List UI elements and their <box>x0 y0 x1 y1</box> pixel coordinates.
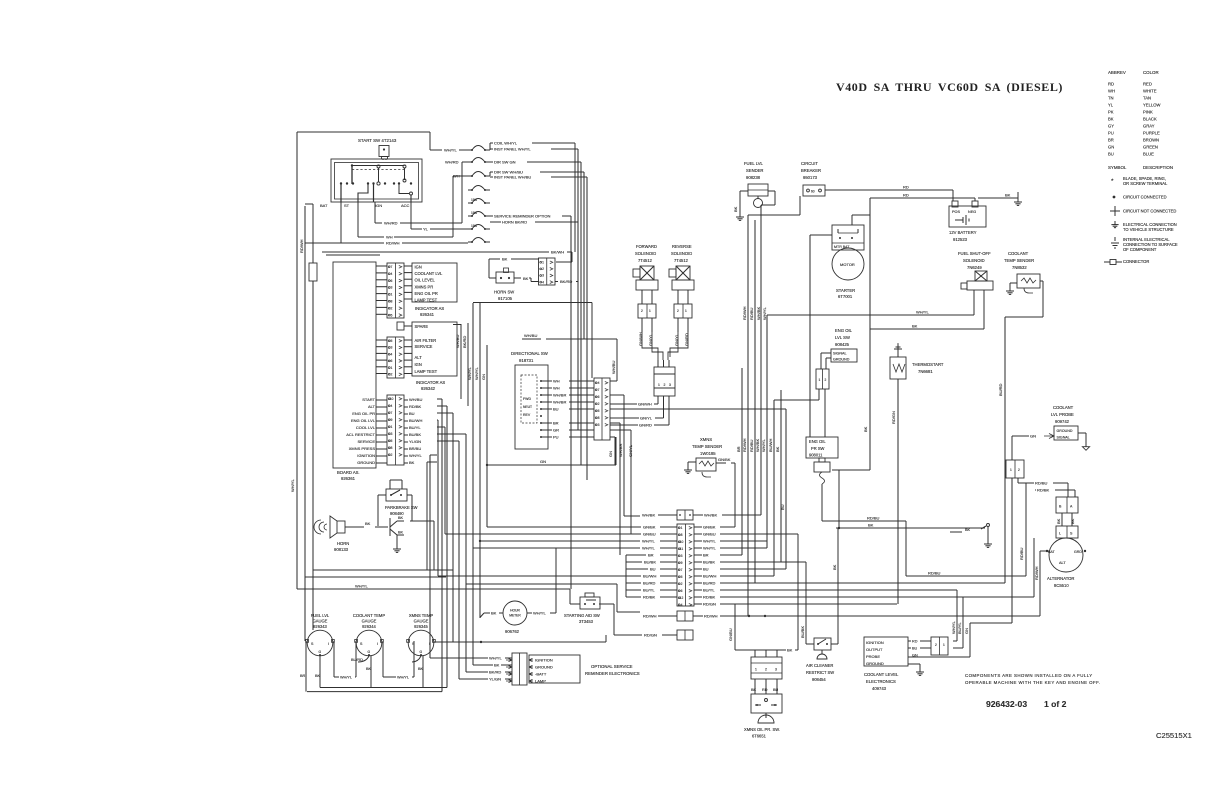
svg-text:PU: PU <box>1108 131 1114 136</box>
svg-text:7N8532: 7N8532 <box>1012 265 1027 270</box>
svg-text:BK: BK <box>418 667 424 671</box>
svg-text:6: 6 <box>598 395 600 399</box>
svg-text:RD/BU: RD/BU <box>749 439 754 452</box>
svg-text:BU/WH: BU/WH <box>768 439 773 452</box>
svg-text:8C5510: 8C5510 <box>1054 583 1069 588</box>
svg-text:PROBE: PROBE <box>866 654 880 659</box>
svg-text:RD/WH: RD/WH <box>1034 566 1039 580</box>
svg-text:IGNITION: IGNITION <box>866 640 884 645</box>
svg-text:5: 5 <box>391 339 393 343</box>
svg-text:WH/YL: WH/YL <box>642 545 655 550</box>
svg-text:SERVICE: SERVICE <box>415 344 433 349</box>
svg-text:COOL LVL: COOL LVL <box>356 425 376 430</box>
svg-text:BK: BK <box>494 663 500 668</box>
svg-text:METER: METER <box>509 614 521 618</box>
svg-text:917105: 917105 <box>498 296 513 301</box>
svg-text:1: 1 <box>658 383 660 387</box>
svg-text:L: L <box>1059 532 1061 536</box>
svg-text:WH/BU: WH/BU <box>409 397 422 402</box>
svg-text:3: 3 <box>542 274 544 278</box>
svg-text:BU: BU <box>703 566 709 571</box>
svg-text:RD: RD <box>762 688 768 692</box>
svg-text:XMNS PRESS: XMNS PRESS <box>349 446 376 451</box>
svg-text:GRD: GRD <box>1074 550 1082 554</box>
svg-text:PURPLE: PURPLE <box>1143 131 1160 136</box>
svg-text:7: 7 <box>391 411 393 415</box>
svg-text:-BATT: -BATT <box>535 672 547 677</box>
svg-text:2: 2 <box>641 309 643 313</box>
svg-text:WH/BU: WH/BU <box>611 361 616 374</box>
svg-text:ACL RESTRICT: ACL RESTRICT <box>346 432 375 437</box>
svg-text:912523: 912523 <box>953 237 968 242</box>
svg-text:WH/BK: WH/BK <box>755 439 760 452</box>
svg-text:RD/BK: RD/BK <box>643 594 656 599</box>
svg-text:RD/GN: RD/GN <box>891 411 896 424</box>
svg-text:GN/YL: GN/YL <box>628 444 633 457</box>
svg-text:BU: BU <box>773 688 779 692</box>
svg-text:XMNS TEMP: XMNS TEMP <box>409 613 434 618</box>
svg-text:YL/GN: YL/GN <box>409 439 421 444</box>
svg-text:9: 9 <box>681 561 683 565</box>
svg-text:BU: BU <box>650 566 656 571</box>
svg-text:COMPONENTS ARE SHOWN INSTALLED: COMPONENTS ARE SHOWN INSTALLED ON A FULL… <box>965 673 1093 678</box>
svg-text:908238: 908238 <box>746 175 761 180</box>
svg-text:INST PANEL WH/YL: INST PANEL WH/YL <box>494 147 531 152</box>
svg-text:1: 1 <box>943 643 945 647</box>
svg-text:CIRCUIT CONNECTED: CIRCUIT CONNECTED <box>1123 195 1167 200</box>
svg-text:3: 3 <box>391 346 393 350</box>
svg-text:950173: 950173 <box>803 175 818 180</box>
svg-text:6: 6 <box>391 279 393 283</box>
svg-text:BK: BK <box>1070 518 1075 524</box>
svg-text:3: 3 <box>391 286 393 290</box>
svg-text:1: 1 <box>681 526 683 530</box>
svg-text:BK: BK <box>1056 518 1061 524</box>
svg-text:WH/YL: WH/YL <box>397 676 409 680</box>
svg-text:BU: BU <box>1108 152 1114 157</box>
svg-text:BK: BK <box>912 324 918 329</box>
svg-text:RED: RED <box>1143 82 1152 87</box>
svg-text:926344: 926344 <box>362 624 376 629</box>
svg-text:2: 2 <box>1018 468 1020 472</box>
svg-text:XMNS OIL PR. SW.: XMNS OIL PR. SW. <box>744 727 780 732</box>
svg-text:YL/GN: YL/GN <box>489 677 501 682</box>
svg-text:ST: ST <box>344 203 350 208</box>
svg-text:XMNS PR: XMNS PR <box>415 284 434 289</box>
svg-text:BK: BK <box>787 648 793 653</box>
svg-text:3: 3 <box>669 383 671 387</box>
svg-text:RD/WH: RD/WH <box>386 241 400 246</box>
svg-text:SOLENOID: SOLENOID <box>671 251 692 256</box>
svg-text:2: 2 <box>765 668 767 672</box>
svg-text:BK/RD: BK/RD <box>489 670 501 675</box>
svg-text:WH/BU: WH/BU <box>524 333 537 338</box>
svg-text:BK/WH: BK/WH <box>551 250 564 255</box>
svg-text:WH/YL: WH/YL <box>533 611 546 616</box>
svg-text:GN/BU: GN/BU <box>703 531 716 536</box>
svg-text:YL: YL <box>1108 103 1114 108</box>
svg-text:GN: GN <box>1030 434 1036 439</box>
svg-text:OPERABLE MACHINE WITH THE KEY: OPERABLE MACHINE WITH THE KEY AND ENGINE… <box>965 680 1100 685</box>
svg-text:INDICATOR AS: INDICATOR AS <box>415 306 444 311</box>
svg-text:COOLANT LEVEL: COOLANT LEVEL <box>864 672 899 677</box>
svg-text:BU/BK: BU/BK <box>409 432 421 437</box>
svg-text:BREAKER: BREAKER <box>801 168 821 173</box>
svg-text:3: 3 <box>391 432 393 436</box>
svg-text:906762: 906762 <box>505 629 520 634</box>
svg-text:3: 3 <box>598 423 600 427</box>
svg-text:908425: 908425 <box>835 342 850 347</box>
svg-text:4: 4 <box>542 280 544 284</box>
svg-text:CIRCUIT: CIRCUIT <box>801 161 818 166</box>
svg-text:BK: BK <box>398 516 404 520</box>
svg-text:GN/BK: GN/BK <box>718 457 731 462</box>
svg-text:6: 6 <box>681 589 683 593</box>
svg-text:RD/GN: RD/GN <box>644 633 657 638</box>
svg-text:5: 5 <box>391 313 393 317</box>
svg-text:COIL WH/YL: COIL WH/YL <box>494 141 518 146</box>
svg-text:V40D SA THRU VC60D SA (DIESEL): V40D SA THRU VC60D SA (DIESEL) <box>836 80 1063 94</box>
svg-text:RD/WH: RD/WH <box>704 614 718 619</box>
svg-text:7: 7 <box>681 568 683 572</box>
svg-text:BR: BR <box>703 552 709 557</box>
svg-text:GROUND: GROUND <box>866 661 884 666</box>
svg-text:START SW 4T2143: START SW 4T2143 <box>358 138 397 143</box>
svg-text:926343: 926343 <box>313 624 327 629</box>
svg-text:BU/WH: BU/WH <box>643 573 656 578</box>
svg-text:7T4512: 7T4512 <box>638 258 653 263</box>
svg-text:SIGNAL: SIGNAL <box>1057 436 1070 440</box>
svg-text:BU/WH: BU/WH <box>703 573 716 578</box>
svg-text:RD/BK: RD/BK <box>1037 488 1050 493</box>
svg-text:2: 2 <box>681 582 683 586</box>
svg-text:WH/BK: WH/BK <box>704 513 717 518</box>
svg-text:ALT: ALT <box>1059 561 1066 565</box>
svg-text:BU/YL: BU/YL <box>703 587 715 592</box>
svg-text:GROUND: GROUND <box>357 460 375 465</box>
svg-text:BR/BU: BR/BU <box>409 446 421 451</box>
svg-text:926345: 926345 <box>414 624 428 629</box>
svg-text:BU/YL: BU/YL <box>643 587 655 592</box>
svg-text:OUTPUT: OUTPUT <box>866 647 883 652</box>
svg-text:7: 7 <box>391 265 393 269</box>
svg-text:POS: POS <box>952 210 960 214</box>
svg-text:ACC: ACC <box>401 203 410 208</box>
svg-text:BK: BK <box>491 611 497 616</box>
svg-text:8: 8 <box>681 533 683 537</box>
svg-text:WH/YL: WH/YL <box>951 621 956 634</box>
svg-text:409743: 409743 <box>872 686 887 691</box>
svg-text:909742: 909742 <box>1055 419 1070 424</box>
svg-text:WH/BK: WH/BK <box>642 513 655 518</box>
svg-text:RD/BU: RD/BU <box>867 516 880 521</box>
svg-text:BK: BK <box>502 257 508 262</box>
svg-text:YL: YL <box>423 227 429 232</box>
svg-text:RD/WH: RD/WH <box>299 239 304 253</box>
svg-text:1: 1 <box>685 309 687 313</box>
svg-text:NEUT: NEUT <box>523 405 532 409</box>
svg-text:WH/BR: WH/BR <box>553 399 566 404</box>
svg-text:PINK: PINK <box>1143 110 1153 115</box>
svg-text:PR SW: PR SW <box>811 446 825 451</box>
svg-text:PU: PU <box>553 434 559 439</box>
svg-text:4: 4 <box>598 381 600 385</box>
svg-text:9: 9 <box>391 418 393 422</box>
svg-text:2: 2 <box>391 373 393 377</box>
svg-text:WH: WH <box>553 385 560 390</box>
svg-text:WH/YL: WH/YL <box>444 148 457 153</box>
svg-text:SOLENOID: SOLENOID <box>963 258 985 263</box>
svg-text:BK: BK <box>366 667 372 671</box>
svg-text:BLACK: BLACK <box>1143 117 1157 122</box>
svg-text:BLUE: BLUE <box>1143 152 1154 157</box>
svg-text:WH/YL: WH/YL <box>642 538 655 543</box>
svg-text:1W0185: 1W0185 <box>700 451 716 456</box>
svg-text:WH: WH <box>453 174 460 179</box>
svg-text:WH: WH <box>386 235 393 240</box>
svg-text:1: 1 <box>391 425 393 429</box>
svg-text:4: 4 <box>391 352 393 356</box>
svg-text:BU/YL: BU/YL <box>957 622 962 634</box>
svg-text:LAMP TEST: LAMP TEST <box>415 298 438 303</box>
svg-text:RD: RD <box>903 185 909 190</box>
svg-text:GN/WH: GN/WH <box>638 402 652 407</box>
svg-text:GAUGE: GAUGE <box>313 619 328 624</box>
svg-text:TN: TN <box>1108 96 1114 101</box>
svg-text:BK: BK <box>832 564 837 570</box>
svg-text:BR: BR <box>1108 138 1114 143</box>
svg-text:HORN SW: HORN SW <box>494 290 514 295</box>
svg-text:SERVICE REMINDER OPTION: SERVICE REMINDER OPTION <box>494 214 550 219</box>
svg-text:8: 8 <box>598 416 600 420</box>
svg-text:BU/RD: BU/RD <box>703 580 716 585</box>
svg-text:WH/RD: WH/RD <box>445 160 459 165</box>
svg-text:WH/YL: WH/YL <box>489 656 502 661</box>
svg-text:ABBREV: ABBREV <box>1108 70 1126 75</box>
svg-text:RESTRICT SW: RESTRICT SW <box>806 670 834 675</box>
svg-text:BK: BK <box>523 276 529 281</box>
svg-text:TAN: TAN <box>1143 96 1151 101</box>
svg-text:2: 2 <box>542 267 544 271</box>
svg-text:GROUND: GROUND <box>1057 429 1073 433</box>
svg-text:BU/BK: BU/BK <box>800 626 805 638</box>
svg-text:2: 2 <box>391 306 393 310</box>
svg-text:IGN: IGN <box>415 362 422 367</box>
svg-text:C25515X1: C25515X1 <box>1156 731 1192 740</box>
svg-text:GN: GN <box>608 451 613 457</box>
svg-text:GN: GN <box>964 628 969 634</box>
svg-text:BK: BK <box>365 521 371 526</box>
svg-text:NEG: NEG <box>968 210 976 214</box>
svg-text:ENG OIL PR: ENG OIL PR <box>352 411 375 416</box>
svg-text:BK: BK <box>1005 193 1011 198</box>
svg-text:GN/BK: GN/BK <box>703 524 716 529</box>
svg-text:WH/YL: WH/YL <box>703 538 716 543</box>
svg-text:7N6681: 7N6681 <box>918 369 933 374</box>
svg-text:ALT: ALT <box>415 355 423 360</box>
svg-text:SIGNAL: SIGNAL <box>833 352 847 356</box>
svg-text:2: 2 <box>391 453 393 457</box>
svg-text:GN: GN <box>540 459 546 464</box>
svg-text:COOLANT TEMP: COOLANT TEMP <box>353 613 385 618</box>
svg-text:FUEL LVL: FUEL LVL <box>744 161 764 166</box>
svg-text:BK: BK <box>868 523 874 528</box>
svg-text:OPTIONAL SERVICE: OPTIONAL SERVICE <box>591 664 633 669</box>
svg-text:LAMP TEST: LAMP TEST <box>415 369 438 374</box>
svg-text:MOTOR: MOTOR <box>840 262 855 267</box>
svg-text:1: 1 <box>391 293 393 297</box>
svg-text:ENG OIL: ENG OIL <box>809 439 826 444</box>
svg-text:STARTER: STARTER <box>836 288 855 293</box>
svg-text:5: 5 <box>598 409 600 413</box>
svg-text:2: 2 <box>935 643 937 647</box>
svg-text:RD/BK: RD/BK <box>409 404 422 409</box>
svg-text:WH: WH <box>1108 89 1115 94</box>
svg-text:BK: BK <box>733 206 738 212</box>
svg-text:DIRECTIONAL SW: DIRECTIONAL SW <box>511 351 549 356</box>
svg-text:COOLANT: COOLANT <box>1008 251 1029 256</box>
svg-text:BK/RD: BK/RD <box>560 279 572 284</box>
svg-text:WH/BR: WH/BR <box>553 392 566 397</box>
svg-text:IGN: IGN <box>375 203 382 208</box>
svg-text:BU/YL: BU/YL <box>409 425 421 430</box>
svg-text:908011: 908011 <box>809 453 823 458</box>
svg-text:XMNS: XMNS <box>700 437 712 442</box>
svg-text:4: 4 <box>391 404 393 408</box>
svg-text:IGNITION: IGNITION <box>535 658 553 663</box>
svg-text:RD/GN: RD/GN <box>703 602 716 607</box>
svg-text:GREEN: GREEN <box>1143 145 1158 150</box>
svg-text:ALTERNATOR: ALTERNATOR <box>1047 576 1074 581</box>
svg-text:RD: RD <box>912 640 918 644</box>
svg-text:G: G <box>319 650 322 654</box>
svg-text:I: I <box>328 642 329 646</box>
svg-text:DESCRIPTION: DESCRIPTION <box>1143 165 1173 170</box>
svg-text:BK: BK <box>965 528 971 532</box>
svg-text:HORN BK/RD: HORN BK/RD <box>502 220 527 225</box>
svg-text:BR: BR <box>300 674 306 678</box>
svg-text:BU/RD: BU/RD <box>351 658 363 662</box>
svg-text:BAT: BAT <box>320 203 328 208</box>
svg-text:908454: 908454 <box>812 677 826 682</box>
svg-text:2: 2 <box>598 402 600 406</box>
svg-text:COOLANT: COOLANT <box>1053 405 1074 410</box>
svg-text:PK: PK <box>1108 110 1114 115</box>
svg-text:FUEL LVL: FUEL LVL <box>311 613 330 618</box>
svg-text:WH/RD: WH/RD <box>384 221 398 226</box>
svg-text:926341: 926341 <box>420 312 435 317</box>
svg-text:RD/BU: RD/BU <box>1035 481 1048 486</box>
svg-text:WH/YL: WH/YL <box>703 545 716 550</box>
svg-text:BAT: BAT <box>1048 550 1056 554</box>
svg-text:WH/YL: WH/YL <box>762 307 767 320</box>
svg-text:REVERSE: REVERSE <box>672 244 692 249</box>
svg-text:TEMP SENDER: TEMP SENDER <box>692 444 722 449</box>
svg-text:926361: 926361 <box>341 476 356 481</box>
svg-text:BU/WH: BU/WH <box>409 418 422 423</box>
svg-text:PARKBRAKE SW: PARKBRAKE SW <box>385 505 418 510</box>
svg-text:IGNITION: IGNITION <box>357 453 375 458</box>
svg-text:RD/WH: RD/WH <box>643 614 657 619</box>
svg-text:15A: 15A <box>471 211 478 215</box>
svg-text:FWD: FWD <box>523 397 531 401</box>
svg-text:WH/YL: WH/YL <box>916 310 929 315</box>
svg-text:BK: BK <box>1108 117 1114 122</box>
svg-text:WH: WH <box>553 378 560 383</box>
svg-text:RD/BU: RD/BU <box>749 307 754 320</box>
svg-text:I: I <box>429 642 430 646</box>
svg-text:GROUND: GROUND <box>833 358 850 362</box>
svg-text:RD/BU: RD/BU <box>1019 547 1024 560</box>
svg-text:RD/WH: RD/WH <box>742 306 747 320</box>
svg-text:7: 7 <box>598 388 600 392</box>
svg-text:5: 5 <box>391 439 393 443</box>
svg-text:TO VEHICLE STRUCTURE: TO VEHICLE STRUCTURE <box>1123 227 1174 232</box>
svg-text:REV: REV <box>523 413 531 417</box>
svg-text:REMINDER ELECTRONICS: REMINDER ELECTRONICS <box>585 671 640 676</box>
svg-text:2: 2 <box>664 383 666 387</box>
svg-text:926432-03: 926432-03 <box>986 699 1027 709</box>
svg-text:RD/WH: RD/WH <box>742 438 747 452</box>
svg-text:5: 5 <box>681 575 683 579</box>
svg-text:COOLANT LVL: COOLANT LVL <box>415 271 444 276</box>
svg-text:BR: BR <box>648 552 654 557</box>
svg-text:HOUR: HOUR <box>510 609 520 613</box>
svg-text:WH/BK: WH/BK <box>756 307 761 320</box>
svg-text:8: 8 <box>391 446 393 450</box>
svg-text:BK: BK <box>398 531 404 535</box>
svg-text:6T6651: 6T6651 <box>752 734 767 739</box>
svg-text:7T4512: 7T4512 <box>674 258 689 263</box>
svg-text:BR: BR <box>736 446 741 452</box>
svg-text:1: 1 <box>755 668 757 672</box>
svg-text:START: START <box>362 397 375 402</box>
svg-text:FORWARD: FORWARD <box>636 244 657 249</box>
svg-text:GAUGE: GAUGE <box>414 619 429 624</box>
svg-text:1: 1 <box>1010 468 1012 472</box>
svg-text:INST PANEL WH/BU: INST PANEL WH/BU <box>494 175 531 180</box>
svg-text:926342: 926342 <box>421 386 436 391</box>
svg-text:2: 2 <box>825 378 827 382</box>
svg-text:DIR SW GN: DIR SW GN <box>494 160 516 165</box>
svg-text:OR SCREW TERMINAL: OR SCREW TERMINAL <box>1123 181 1168 186</box>
svg-text:FUEL SHUT-OFF: FUEL SHUT-OFF <box>958 251 991 256</box>
svg-text:AIR CLEANER: AIR CLEANER <box>806 663 833 668</box>
svg-text:LVL PROBE: LVL PROBE <box>1051 412 1074 417</box>
svg-text:SPARE: SPARE <box>415 324 429 329</box>
svg-text:1: 1 <box>819 378 821 382</box>
svg-text:BU: BU <box>912 647 918 651</box>
svg-text:LAMP: LAMP <box>535 679 546 684</box>
svg-text:2: 2 <box>677 309 679 313</box>
svg-text:AIR FILTER: AIR FILTER <box>415 338 437 343</box>
svg-text:BU/BK: BU/BK <box>703 559 715 564</box>
svg-text:THERMOSTART: THERMOSTART <box>912 362 944 367</box>
svg-text:ENG OIL LVL: ENG OIL LVL <box>351 418 376 423</box>
svg-text:BROWN: BROWN <box>1143 138 1159 143</box>
svg-text:G: G <box>420 650 423 654</box>
svg-text:3: 3 <box>775 668 777 672</box>
svg-text:GY: GY <box>1108 124 1114 129</box>
svg-text:ENG OIL: ENG OIL <box>835 328 853 333</box>
svg-text:908133: 908133 <box>334 547 349 552</box>
svg-text:OIL LEVEL: OIL LEVEL <box>415 278 436 283</box>
svg-text:INDICATOR AS: INDICATOR AS <box>416 380 445 385</box>
svg-text:IGN: IGN <box>415 265 422 270</box>
svg-text:BU: BU <box>553 406 559 411</box>
svg-text:3T3453: 3T3453 <box>579 619 594 624</box>
svg-text:6: 6 <box>391 359 393 363</box>
